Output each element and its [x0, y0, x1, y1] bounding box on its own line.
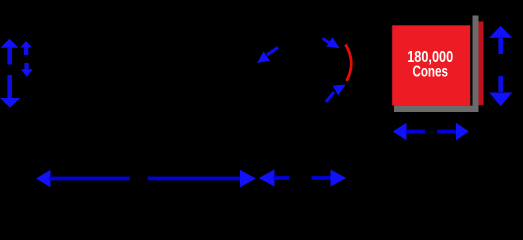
svg-text:Cones: Cones [412, 64, 448, 81]
big left vertical double-headed dimension arrow [0, 39, 20, 108]
thin dark red strip right of gray shadow [479, 22, 484, 106]
bottom long dimension arrow (left span) [36, 170, 256, 187]
small up arrow (left group) [20, 41, 31, 55]
right vertical dimension arrow (up part) [489, 26, 512, 54]
label 180,000 Cones [407, 49, 453, 81]
dimension arrow under red box [393, 123, 469, 140]
diagonal ray arrow pointing down-left (eye region) [254, 48, 278, 68]
right vertical dimension arrow (down part) [489, 76, 512, 106]
gray shadow vertical strip right of red box [473, 16, 479, 112]
small down arrow (left group) [21, 63, 33, 77]
bottom dimension arrow (second span) [259, 170, 346, 187]
gray shadow strip under red box [394, 106, 479, 112]
diagonal ray arrow pointing down-right toward fovea arc [323, 37, 343, 53]
diagonal ray arrow pointing up-right toward fovea arc [326, 80, 349, 102]
fovea red arc on retina [346, 45, 352, 82]
red box: magnified fovea [392, 25, 470, 105]
